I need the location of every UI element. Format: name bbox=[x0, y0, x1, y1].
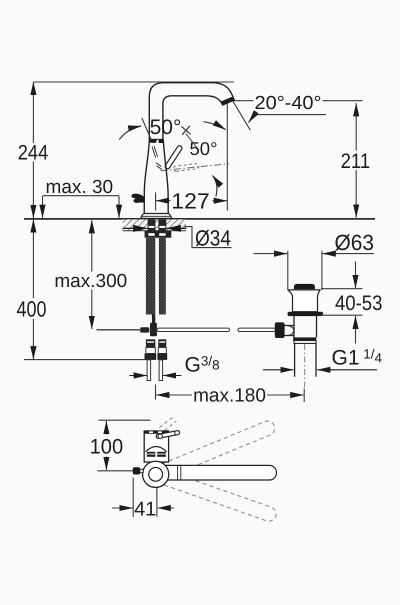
rod knob bbox=[275, 322, 285, 338]
drain side port bbox=[284, 326, 294, 336]
drain bottom flange bbox=[293, 337, 316, 340]
dimension 40-53 arrows bbox=[355, 262, 357, 289]
swivel collar outer circle bbox=[143, 461, 169, 487]
horizontal rod right tube bbox=[238, 328, 276, 331]
mounting shank columns bbox=[148, 220, 156, 232]
dimension 211 vertical line bbox=[355, 103, 357, 150]
body dome arc bbox=[146, 447, 167, 452]
svg-text:41: 41 bbox=[134, 498, 156, 520]
dimension 41 arrows bbox=[112, 507, 133, 509]
body joint dark band bbox=[149, 139, 157, 143]
faucet body bbox=[144, 140, 168, 214]
lever (raised position) bbox=[165, 146, 182, 169]
drain plug cap bbox=[294, 284, 315, 289]
body highlight marks bbox=[152, 146, 162, 170]
dashed spout position upper bbox=[158, 421, 275, 478]
lever pivot bbox=[158, 434, 162, 438]
svg-text:max.180: max.180 bbox=[193, 386, 266, 407]
rod coupling bbox=[150, 323, 157, 337]
dimension 127 bbox=[155, 193, 157, 211]
mounting nut bbox=[145, 231, 172, 238]
rod clamp screw bbox=[140, 327, 149, 332]
svg-text:max. 30: max. 30 bbox=[46, 177, 114, 198]
lever outline (dashed) bbox=[173, 164, 198, 172]
svg-text:244: 244 bbox=[18, 142, 49, 165]
dimension Ø63 bbox=[254, 253, 288, 255]
body dark windows bbox=[147, 452, 156, 457]
lever angle curved arrow bbox=[213, 176, 217, 197]
dashed spout position lower bbox=[158, 470, 276, 521]
side lever paddle bbox=[131, 194, 144, 204]
horizontal rod left segment bbox=[97, 329, 141, 331]
svg-text:127: 127 bbox=[171, 188, 210, 213]
top reference line (spout top) bbox=[33, 81, 234, 83]
supply hose right bbox=[159, 238, 166, 315]
counter top line bbox=[24, 218, 375, 220]
G3/8 pipe right bbox=[159, 360, 163, 381]
Ø34 leader bbox=[184, 227, 232, 248]
supply hose left bbox=[146, 238, 155, 315]
dimension max.300 vertical line bbox=[91, 220, 93, 271]
body top cap bbox=[144, 431, 168, 434]
G3/8 pipe left bbox=[147, 360, 151, 381]
dimension G1 1/4 arrows bbox=[263, 369, 294, 371]
leader cross-to-lever bbox=[186, 134, 198, 149]
dimension 41 extension lines bbox=[132, 478, 134, 517]
swivel tick across pipe bbox=[142, 118, 151, 139]
swivel cross mark bbox=[182, 126, 191, 135]
dimension G3/8 arrows bbox=[130, 375, 147, 377]
dimension 100 bbox=[99, 419, 151, 421]
Ø34 arrows bbox=[123, 227, 148, 229]
svg-text:211: 211 bbox=[341, 150, 371, 173]
counter hatch band bbox=[123, 219, 187, 230]
svg-text:Ø34: Ø34 bbox=[195, 226, 231, 251]
lever (horizontal position, dash-dot) bbox=[161, 164, 230, 171]
bottom reference line (400) bbox=[24, 359, 146, 361]
dimension 244 vertical line bbox=[32, 82, 34, 143]
svg-text:Ø63: Ø63 bbox=[335, 230, 375, 255]
drain flange bbox=[288, 312, 324, 316]
svg-text:50°: 50° bbox=[150, 116, 182, 139]
swivel right curved arrow bbox=[204, 122, 226, 130]
dimension max.180 bbox=[155, 385, 157, 400]
G3/8 connector left bbox=[146, 339, 155, 347]
rod knob (front) bbox=[133, 467, 140, 474]
svg-text:400: 400 bbox=[17, 297, 47, 322]
lever rod (front) bbox=[156, 431, 179, 439]
drain nut bbox=[294, 341, 316, 344]
faucet body column (front) bbox=[144, 431, 168, 462]
escutcheon base bbox=[141, 214, 172, 219]
dimension 400 vertical line bbox=[32, 219, 34, 298]
spout mouth (aerator face) bbox=[220, 96, 235, 106]
drain upper funnel bbox=[288, 290, 320, 312]
svg-text:40-53: 40-53 bbox=[335, 292, 383, 315]
spout tube (front) bbox=[160, 465, 277, 480]
tailpipe centerline bbox=[304, 344, 306, 388]
svg-text:50°: 50° bbox=[190, 138, 218, 159]
faucet spout (gooseneck inner) bbox=[163, 96, 221, 140]
swivel left curved arrow bbox=[119, 126, 141, 140]
label 20°-40° reference line bbox=[233, 100, 254, 102]
rod knob stem (front) bbox=[140, 469, 143, 472]
counter hatch bottom line bbox=[123, 230, 187, 232]
label 20°-40° underline bbox=[255, 114, 326, 116]
faucet spout (gooseneck outer) bbox=[149, 83, 233, 140]
spout tip vertical extension line bbox=[226, 103, 228, 211]
dimension max.30 bracket bbox=[43, 195, 120, 197]
svg-text:100: 100 bbox=[90, 436, 124, 459]
pop-up rod vertical bbox=[152, 315, 155, 324]
spout angle line bbox=[233, 101, 250, 130]
dashed lever position bbox=[160, 417, 174, 428]
drain tailpipe bbox=[295, 343, 316, 376]
dimension 40-53 extension lines bbox=[321, 288, 363, 290]
svg-text:max.300: max.300 bbox=[54, 271, 127, 292]
horizontal rod middle tube bbox=[157, 328, 230, 331]
leader arrow to spout angle bbox=[249, 112, 257, 123]
Ø63 extension lines bbox=[287, 251, 289, 289]
G3/8 connector right bbox=[158, 339, 166, 347]
svg-text:20°-40°: 20°-40° bbox=[255, 93, 322, 114]
drain body bbox=[294, 316, 317, 337]
swivel collar inner circle bbox=[149, 467, 163, 481]
tailpipe center tick bbox=[303, 389, 305, 403]
